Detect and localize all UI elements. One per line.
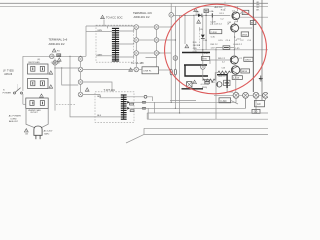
svg-text:R65 2.2: R65 2.2 bbox=[218, 58, 226, 60]
bridge rectifier bbox=[187, 82, 192, 88]
svg-text:LF: TY555: LF: TY555 bbox=[3, 71, 14, 73]
wire bbox=[239, 94, 263, 96]
wire bus bbox=[179, 15, 181, 113]
wire bbox=[62, 68, 78, 85]
svg-text:4R14: 4R14 bbox=[242, 71, 248, 73]
wire bbox=[194, 49, 268, 51]
wire bbox=[83, 82, 112, 92]
label S1 POWER bbox=[3, 89, 12, 94]
wire bbox=[214, 73, 216, 81]
wire hook bbox=[126, 134, 144, 143]
label block bbox=[193, 42, 201, 53]
wire bbox=[119, 30, 134, 32]
warning triangle bbox=[49, 85, 53, 88]
wire dark elbow bbox=[185, 65, 208, 76]
svg-text:R05 2.2: R05 2.2 bbox=[218, 76, 226, 78]
label GD bbox=[252, 109, 260, 113]
fuse F2 bbox=[204, 9, 208, 13]
wire bbox=[230, 72, 231, 74]
transformer T1 winding bbox=[112, 28, 119, 61]
wire bbox=[0, 2, 268, 4]
transistor Q4 bbox=[231, 66, 239, 74]
wire nested bus 3 bbox=[147, 112, 268, 114]
terminal bbox=[134, 67, 139, 72]
wire bbox=[85, 26, 87, 56]
wire dashed bbox=[56, 103, 75, 105]
svg-text:TO ACC SOC: TO ACC SOC bbox=[106, 16, 123, 20]
svg-text:C05: C05 bbox=[228, 22, 233, 24]
warning triangle bbox=[194, 8, 198, 11]
wire bbox=[194, 14, 198, 16]
node junction bbox=[234, 37, 235, 38]
svg-text:0.15: 0.15 bbox=[218, 40, 223, 42]
terminal bbox=[201, 65, 206, 70]
svg-text:C-310: C-310 bbox=[220, 101, 227, 103]
wire bbox=[83, 69, 134, 71]
label row bbox=[218, 40, 251, 42]
transformer T2 winding bbox=[121, 95, 127, 119]
svg-text:T: ATT-101: T: ATT-101 bbox=[104, 89, 116, 92]
capacitor C05 bbox=[212, 13, 222, 25]
diode D2 bbox=[127, 98, 245, 111]
wire bus tap dark bbox=[182, 52, 210, 54]
dashed leader bbox=[224, 2, 226, 11]
plug P1 bbox=[34, 126, 42, 139]
wire nested bus 6 bbox=[144, 133, 268, 135]
warning triangle bbox=[40, 94, 44, 97]
svg-text:ADV-06: ADV-06 bbox=[4, 73, 13, 76]
wire bbox=[83, 95, 121, 98]
svg-text:FL: UL-188: FL: UL-188 bbox=[132, 62, 145, 65]
wire bbox=[159, 39, 176, 41]
terminal bbox=[243, 92, 249, 98]
terminal bbox=[169, 13, 174, 18]
wire bbox=[159, 69, 172, 71]
terminal bbox=[154, 51, 159, 56]
wire bbox=[54, 59, 56, 111]
wire bbox=[215, 50, 217, 119]
inline connector bbox=[170, 69, 172, 75]
wire bbox=[139, 52, 155, 54]
svg-text:D1.5: D1.5 bbox=[220, 13, 225, 15]
wire bus tap dark bbox=[184, 64, 207, 66]
transformer T2 dashed enclosure bbox=[95, 92, 134, 123]
wire bus tap dark bbox=[182, 88, 204, 90]
wire bbox=[136, 29, 156, 50]
terminal bbox=[173, 56, 178, 61]
svg-text:POWER: POWER bbox=[3, 93, 12, 95]
svg-text:C13: C13 bbox=[222, 68, 227, 70]
wire bbox=[193, 15, 195, 49]
wire bbox=[205, 13, 207, 50]
node junction bbox=[175, 108, 176, 109]
terminal bbox=[78, 67, 83, 72]
label TERMINAL 2x6 AWR-201 2/2 bbox=[49, 38, 68, 46]
svg-text:60Hz: 60Hz bbox=[44, 134, 49, 136]
svg-text:AC POWER: AC POWER bbox=[9, 115, 21, 118]
node junction bbox=[215, 49, 216, 50]
label C4.08 bbox=[210, 21, 216, 26]
warning triangle bbox=[129, 68, 133, 71]
terminal bbox=[78, 92, 83, 97]
resistor R05 bbox=[203, 79, 215, 82]
wire bbox=[80, 61, 82, 67]
warning triangle bbox=[197, 20, 201, 23]
svg-text:BLK: BLK bbox=[97, 115, 102, 117]
svg-text:AWR-201 1/2: AWR-201 1/2 bbox=[134, 15, 151, 19]
svg-text:1-R43: 1-R43 bbox=[245, 60, 252, 62]
wire AC cord loop bbox=[26, 109, 48, 128]
node junction bbox=[202, 49, 203, 50]
wire bbox=[214, 94, 233, 96]
wire bbox=[80, 72, 82, 92]
wire bus right bbox=[252, 0, 254, 92]
node junction bbox=[175, 39, 176, 40]
label C-R08 bbox=[210, 30, 222, 39]
wire bbox=[103, 20, 105, 27]
terminal bbox=[134, 38, 139, 43]
flag label bbox=[240, 10, 249, 14]
svg-text:R05 2.2: R05 2.2 bbox=[211, 44, 219, 46]
wire bbox=[174, 14, 194, 16]
label C-310 bbox=[219, 98, 238, 104]
svg-text:C4.08: C4.08 bbox=[210, 21, 216, 23]
wire bbox=[233, 50, 235, 56]
wire bbox=[22, 94, 24, 104]
node junction bbox=[234, 49, 235, 50]
fuse F1 bbox=[57, 54, 61, 57]
wire bbox=[184, 15, 186, 44]
wire bbox=[227, 88, 233, 92]
ground symbol bbox=[259, 76, 263, 82]
svg-text:LINE FL: LINE FL bbox=[143, 71, 152, 73]
wire bbox=[135, 55, 137, 67]
node junction bbox=[171, 102, 172, 103]
transformer T1 dashed enclosure bbox=[96, 25, 133, 62]
flag label bbox=[241, 32, 248, 37]
svg-text:(K): (K) bbox=[38, 59, 41, 61]
wire bbox=[240, 16, 268, 18]
svg-text:0.5A: 0.5A bbox=[209, 10, 214, 13]
wire bbox=[216, 48, 234, 50]
warning triangle bbox=[185, 44, 189, 47]
node junction bbox=[54, 67, 55, 68]
highlight annotation red ellipse bbox=[160, 0, 271, 99]
wire bbox=[202, 14, 211, 16]
warning triangle bbox=[24, 129, 28, 132]
inline connector bbox=[174, 69, 176, 75]
wire bus bbox=[170, 17, 172, 102]
terminal bbox=[78, 57, 83, 62]
svg-text:LD: LD bbox=[257, 102, 260, 106]
label MET bbox=[195, 12, 200, 16]
label TERMINAL 4x6 AWR-201 1/2 bbox=[133, 11, 152, 19]
svg-text:(R05): (R05) bbox=[202, 87, 207, 89]
terminal bbox=[134, 25, 139, 30]
diode D3 bbox=[198, 14, 202, 18]
svg-text:S:: S: bbox=[3, 89, 5, 91]
diode D4 bbox=[201, 35, 205, 65]
svg-text:OUTLET: OUTLET bbox=[30, 112, 38, 114]
wire bbox=[234, 32, 236, 37]
wire bbox=[213, 14, 231, 16]
switched outlet SO1 bbox=[28, 64, 49, 74]
wire bbox=[239, 27, 252, 29]
wire bbox=[22, 56, 24, 91]
wire bbox=[146, 55, 157, 57]
dashed leader bbox=[199, 27, 201, 48]
wire bbox=[159, 26, 171, 28]
svg-text:FU: FU bbox=[57, 51, 60, 53]
svg-text:SWITCHED: SWITCHED bbox=[28, 62, 40, 64]
label AC POWER CORD bbox=[9, 115, 21, 124]
pin bbox=[144, 95, 147, 98]
svg-text:AVR 234: AVR 234 bbox=[215, 6, 224, 9]
flag label bbox=[244, 57, 253, 61]
wire bbox=[96, 31, 112, 33]
wire bbox=[55, 67, 78, 69]
wire nested bus 5 bbox=[144, 127, 268, 129]
wire bbox=[139, 69, 142, 71]
node junction bbox=[61, 67, 62, 68]
svg-text:+C05 1.4: +C05 1.4 bbox=[214, 23, 223, 25]
svg-text:CORD: CORD bbox=[10, 118, 17, 120]
svg-text:C-R08: C-R08 bbox=[211, 32, 218, 34]
switch S1 bbox=[14, 85, 23, 95]
wire bbox=[153, 102, 155, 113]
warning triangle bbox=[49, 71, 53, 74]
warning triangle bbox=[57, 58, 61, 61]
node junction bbox=[171, 26, 172, 27]
wire bbox=[215, 72, 218, 74]
wire bbox=[146, 113, 148, 119]
wire bbox=[70, 56, 121, 117]
terminal bbox=[154, 25, 159, 30]
wire bbox=[23, 55, 86, 57]
wire bbox=[234, 37, 236, 50]
wire bbox=[143, 128, 145, 134]
wire bbox=[96, 55, 112, 57]
wire bbox=[235, 74, 237, 92]
wire bbox=[119, 43, 134, 45]
capacitor block bbox=[223, 46, 230, 50]
svg-text:0.35: 0.35 bbox=[211, 36, 216, 38]
wire bbox=[147, 108, 149, 119]
svg-text:AWR-201 2/2: AWR-201 2/2 bbox=[49, 42, 66, 46]
terminal bbox=[154, 38, 159, 43]
node junction bbox=[193, 15, 194, 16]
svg-text:2R13: 2R13 bbox=[242, 34, 248, 36]
svg-text:C1.4: C1.4 bbox=[226, 40, 231, 42]
transistor Q5 bbox=[217, 82, 222, 87]
terminal bbox=[253, 92, 259, 98]
wire bbox=[23, 103, 26, 105]
node junction bbox=[69, 56, 70, 57]
svg-text:RG5: RG5 bbox=[202, 59, 207, 61]
line filter FL1 bbox=[142, 67, 159, 74]
label AC 120V 60Hz bbox=[44, 130, 53, 136]
svg-text:ADE-057: ADE-057 bbox=[9, 120, 19, 123]
svg-text:2.05: 2.05 bbox=[203, 40, 208, 42]
wire bbox=[202, 15, 204, 34]
diode D1 bbox=[127, 98, 236, 105]
resistor RG5 bbox=[202, 56, 210, 60]
wire bbox=[119, 56, 134, 58]
wire bbox=[147, 97, 153, 101]
terminal bbox=[50, 54, 55, 59]
connector box bbox=[255, 100, 265, 106]
svg-text:C2: C2 bbox=[239, 58, 242, 60]
terminal bbox=[78, 80, 83, 85]
capacitor block bbox=[224, 80, 230, 85]
terminal bbox=[134, 51, 139, 56]
terminal bbox=[233, 92, 239, 98]
flag label bbox=[241, 69, 250, 73]
label line filter bbox=[3, 71, 14, 76]
transistor Q3 bbox=[230, 56, 238, 64]
wire bbox=[210, 60, 230, 64]
wire bbox=[139, 26, 155, 28]
wire bbox=[139, 39, 155, 41]
transistor Q2 bbox=[231, 24, 239, 32]
svg-text:CB: CB bbox=[25, 134, 28, 136]
wire bus right bbox=[261, 0, 263, 100]
wire bbox=[237, 6, 239, 11]
label R05 bbox=[201, 84, 209, 89]
label color codes bbox=[256, 2, 260, 11]
node junction bbox=[212, 15, 213, 16]
svg-text:C.8: C.8 bbox=[247, 40, 251, 42]
wire bbox=[156, 55, 158, 67]
warning triangle bbox=[193, 80, 197, 83]
wire bbox=[246, 98, 266, 113]
svg-text:R05: R05 bbox=[193, 42, 198, 44]
capacitor block bbox=[205, 80, 210, 84]
label box bbox=[232, 76, 242, 80]
transistor Q1 bbox=[232, 12, 240, 20]
unswitched outlet SO3 bbox=[26, 98, 48, 109]
svg-text:AC 120V: AC 120V bbox=[44, 130, 53, 133]
svg-text:TERMINAL 4×6: TERMINAL 4×6 bbox=[133, 11, 152, 15]
node junction bbox=[179, 112, 180, 113]
wire bbox=[235, 18, 238, 24]
svg-text:2.2: 2.2 bbox=[222, 61, 226, 63]
outlet slot marks bbox=[33, 67, 43, 104]
wire bus bbox=[174, 6, 176, 108]
wire bbox=[107, 26, 109, 28]
svg-text:1-C13: 1-C13 bbox=[233, 78, 240, 80]
node junction bbox=[206, 15, 207, 16]
wire bbox=[86, 31, 96, 33]
svg-text:TERMINAL 2×6: TERMINAL 2×6 bbox=[49, 38, 68, 42]
wire bus bbox=[170, 3, 172, 12]
label specks bbox=[199, 29, 226, 69]
svg-text:2.2: 2.2 bbox=[240, 40, 244, 42]
svg-text:0.5 1/2W: 0.5 1/2W bbox=[201, 84, 209, 86]
wire nested bus 4 bbox=[147, 118, 268, 120]
wire bbox=[202, 69, 204, 80]
svg-text:1.5V: 1.5V bbox=[211, 48, 216, 50]
wire bbox=[127, 96, 145, 98]
terminal bbox=[263, 92, 269, 98]
wire bbox=[86, 25, 134, 27]
svg-text:BLK: BLK bbox=[97, 96, 102, 98]
wire bbox=[170, 100, 196, 102]
wire bbox=[159, 52, 171, 54]
svg-text:C.2: C.2 bbox=[220, 18, 224, 20]
svg-text:2SC458: 2SC458 bbox=[193, 45, 201, 47]
switched outlet SO2 bbox=[28, 79, 49, 89]
flag label bbox=[250, 21, 256, 25]
node junction bbox=[184, 15, 185, 16]
node junction bbox=[80, 56, 81, 57]
terminal bbox=[53, 61, 58, 66]
resistor R06 bbox=[218, 71, 230, 74]
warning triangle bbox=[85, 88, 89, 91]
wire bbox=[0, 5, 268, 7]
node junction bbox=[253, 17, 254, 18]
node junction bbox=[159, 52, 160, 53]
label TO ACC SOC bbox=[101, 15, 123, 19]
wire dark elbow bbox=[217, 75, 227, 88]
svg-text:DR.: DR. bbox=[256, 9, 260, 11]
svg-text:1R4: 1R4 bbox=[211, 82, 216, 84]
warning triangle bbox=[52, 49, 60, 53]
